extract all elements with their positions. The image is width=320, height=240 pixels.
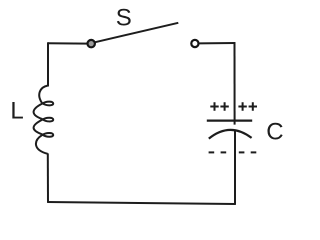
svg-text:L: L [10,97,23,124]
switch S lever arm [93,23,179,43]
switch S open terminal circle [191,40,198,47]
svg-text:C: C [266,119,283,146]
capacitor C top plate (straight) [207,119,252,121]
switch S pivot contact (filled) [88,40,95,47]
wire right vertical lower [234,131,236,205]
wire right vertical upper [234,42,236,124]
inductor L coil [34,86,54,154]
svg-text:S: S [116,5,132,32]
negative charge symbols - - - - [209,151,257,153]
wire left vertical lower [47,153,49,202]
wire top-left horizontal [48,42,88,44]
wire top-right horizontal [199,42,236,44]
wire bottom horizontal [47,202,235,204]
wire left vertical upper [47,42,49,86]
capacitor C bottom plate (curved) [209,130,252,139]
positive charge symbols ++ ++ [210,102,257,110]
